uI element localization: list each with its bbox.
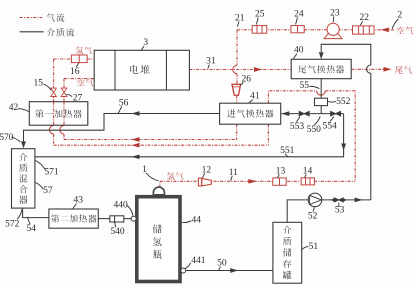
svg-text:440: 440 [113, 200, 128, 210]
svg-text:570: 570 [0, 133, 14, 143]
arrow on hydrogen line 11 [248, 179, 256, 184]
svg-text:553: 553 [290, 122, 305, 132]
arrow on 551 line (left) [132, 154, 140, 159]
svg-text:22: 22 [360, 13, 370, 23]
svg-text:554: 554 [322, 121, 337, 131]
svg-text:441: 441 [191, 256, 206, 266]
medium storage tank box 51 (介质储存罐) [273, 222, 302, 283]
valve 27 (red, vertical) [61, 88, 67, 96]
svg-text:55: 55 [300, 81, 310, 91]
svg-text:31: 31 [206, 57, 216, 67]
arrow tail-gas out [384, 67, 392, 72]
component 23 (air pump: circle on triangle) [324, 28, 342, 39]
svg-text:552: 552 [336, 97, 351, 107]
svg-text:21: 21 [235, 13, 245, 23]
component 14 (striped box on hydrogen line) [301, 178, 314, 185]
valve 554 (black) [331, 111, 341, 116]
arrow on 56 line (left) [132, 111, 140, 116]
component 13 (two-cell box on hydrogen line) [273, 178, 286, 185]
label 空气 (far right) [397, 27, 404, 34]
wire hydrogen from bottle dome [159, 181, 161, 187]
hydrogen bottle 44 (储氢瓶) thick-walled [137, 197, 180, 282]
svg-text:551: 551 [280, 146, 295, 156]
svg-text:13: 13 [276, 166, 286, 176]
svg-text:40: 40 [294, 46, 304, 56]
component 16 (two-cell box on hydrogen inlet) [71, 55, 87, 63]
wire air through heater 1 (visible) [63, 102, 65, 126]
pump 52 (circle with triangle) [308, 193, 322, 207]
svg-text:550: 550 [307, 125, 322, 135]
svg-text:51: 51 [309, 242, 319, 252]
wire hydrogen return line y=145 [54, 144, 269, 146]
wire pump 52 line from storage tank [287, 200, 371, 222]
svg-text:23: 23 [330, 8, 340, 18]
wire hydrogen through heater 1 (visible) [53, 102, 55, 126]
component 25 (striped box) [252, 26, 267, 34]
wire air vertical through valve 27 and heater 1 [63, 79, 65, 126]
legend medium-flow line [20, 31, 44, 33]
wire intake exchanger right bottom port down [267, 124, 269, 145]
valve 15 (red, vertical) [51, 88, 57, 96]
svg-text:25: 25 [255, 9, 265, 19]
svg-text:540: 540 [110, 227, 125, 237]
bottle dome port [153, 187, 164, 195]
wire 31 stack exhaust to tail-gas exchanger [189, 69, 291, 71]
svg-text:57: 57 [43, 186, 53, 196]
component 12 (nozzle on hydrogen line) [198, 178, 201, 186]
legend gas-flow line [20, 17, 43, 19]
wire 56 medium line from intake exchanger to mixer [24, 114, 220, 147]
arrow on 50 line (right) [230, 268, 238, 273]
svg-text:572: 572 [5, 219, 20, 229]
wire intake exchanger left bottom port down [236, 124, 238, 139]
component 26 (funnel on air drop) [232, 84, 241, 95]
arrow on wire 31 [254, 67, 262, 72]
svg-text:27: 27 [73, 94, 83, 104]
label 空气 (stack inlet) [77, 79, 84, 86]
svg-text:24: 24 [294, 9, 304, 19]
wire hydrogen into stack via component 16 [54, 58, 95, 60]
arrow on pump line (right) [355, 198, 363, 203]
arrow into intake exchanger right edge (left) [281, 111, 289, 116]
wire valve line 553/554 [282, 113, 344, 115]
component 540 (box between heater2 and bottle) [110, 216, 124, 222]
arrow into tail-gas exchanger top (down) [319, 52, 324, 59]
label 尾气 (far right) [395, 66, 403, 73]
wire air into stack [64, 78, 94, 80]
svg-text:16: 16 [70, 67, 80, 77]
label 氢气 (bottle) [167, 172, 175, 180]
mixer box 57 (介质混合器) [12, 149, 35, 208]
wire 540 to bottle port 440 [124, 218, 133, 220]
bottle right port 441 [181, 268, 186, 273]
arrow into mixer top (down) [21, 141, 26, 148]
wire hydrogen line 11 [160, 180, 355, 182]
svg-text:15: 15 [34, 79, 44, 89]
svg-text:56: 56 [119, 99, 129, 109]
wire funnel 26 to intake exchanger top [236, 95, 238, 103]
intake heat exchanger box 41 (进气换热器) [220, 103, 281, 124]
wire 55 pipe from tail-gas exchanger bottom [320, 79, 322, 114]
svg-text:50: 50 [217, 259, 227, 269]
component 24 (two-cell box) [291, 26, 304, 33]
arrow on 551 drop (down) [341, 144, 346, 151]
wire 50 bottle to storage tank [185, 270, 273, 272]
legend medium-flow label 介质流 [47, 28, 55, 36]
wire hydrogen vertical through valve 15 and heater 1 [53, 59, 55, 126]
legend gas-flow label 气流 [47, 13, 55, 21]
bottle left port 440 [131, 216, 136, 221]
tail gas heat exchanger box 40 (尾气换热器) [291, 59, 351, 78]
wire heater 2 to component 540 [98, 218, 110, 220]
svg-text:12: 12 [202, 165, 212, 175]
svg-text:14: 14 [303, 166, 313, 176]
wire mixer bottom to heater 2 [23, 208, 49, 218]
component 22 (air filter striped box) [353, 26, 375, 34]
wire red loop top y=91 with dip around pipe 55 [268, 91, 316, 103]
wire 21 vertical drop with hop over line 31 [236, 30, 238, 66]
heater 1 box 42 (第一加热器) [29, 102, 88, 126]
wire top loop to tail-gas exchanger with hop over tail-gas line [321, 44, 371, 200]
svg-text:11: 11 [229, 168, 238, 178]
valve 553 (black) [299, 111, 309, 116]
svg-text:53: 53 [335, 206, 345, 216]
valve 53 (black, with end dots) [334, 198, 343, 202]
svg-text:43: 43 [73, 195, 83, 205]
wire tail-gas output 尾气 [351, 68, 383, 70]
wire 551 return line to mixer [35, 114, 344, 157]
wire air return line y=139.5 [64, 139, 237, 141]
svg-text:54: 54 [27, 224, 37, 234]
svg-text:52: 52 [308, 212, 318, 222]
heater 2 box 43 (第二加热器) [49, 209, 98, 228]
component 552 (box on pipe 55) [315, 98, 328, 105]
fuel cell stack box 3 (电堆) [94, 50, 189, 90]
wire air intake line (2 to 21) [237, 29, 394, 31]
arrow on air intake (pointing left) [381, 27, 389, 32]
arrow hydrogen return (left) [132, 143, 140, 148]
svg-text:42: 42 [9, 103, 19, 113]
svg-text:571: 571 [44, 168, 59, 178]
arrow air return (left) [132, 137, 140, 142]
label 氢气 (stack inlet) [76, 47, 84, 55]
svg-text:44: 44 [191, 216, 201, 226]
